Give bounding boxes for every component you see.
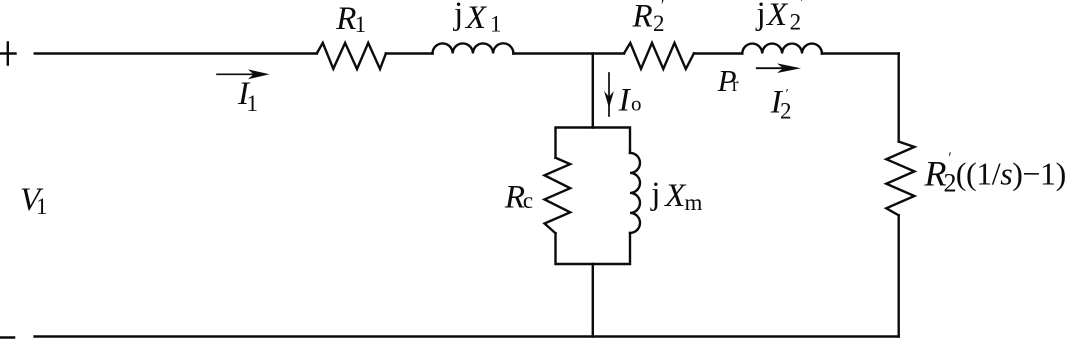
svg-text:R: R	[632, 0, 653, 35]
svg-text:1: 1	[490, 12, 502, 37]
svg-text:′: ′	[661, 0, 664, 14]
svg-text:((1/s)−1): ((1/s)−1)	[956, 156, 1066, 192]
svg-text:j: j	[756, 0, 766, 32]
svg-text:X: X	[765, 0, 789, 33]
svg-text:R: R	[335, 1, 356, 37]
svg-text:2: 2	[944, 168, 957, 197]
svg-text:1: 1	[355, 12, 367, 37]
svg-text:c: c	[523, 188, 533, 213]
svg-text:1: 1	[247, 91, 259, 116]
svg-text:′: ′	[948, 150, 951, 166]
svg-text:m: m	[685, 190, 703, 215]
svg-text:1: 1	[36, 194, 48, 219]
svg-text:2: 2	[790, 10, 802, 35]
svg-text:′: ′	[801, 0, 804, 11]
svg-text:2: 2	[653, 11, 665, 36]
svg-text:I: I	[618, 83, 632, 119]
svg-text:r: r	[732, 74, 739, 96]
svg-text:o: o	[631, 92, 642, 116]
svg-text:X: X	[663, 178, 687, 214]
svg-text:2: 2	[780, 98, 792, 123]
svg-text:j: j	[650, 176, 660, 212]
svg-text:R: R	[504, 179, 525, 215]
svg-text:X: X	[464, 0, 488, 36]
svg-text:′: ′	[786, 87, 789, 102]
svg-text:j: j	[453, 0, 463, 32]
